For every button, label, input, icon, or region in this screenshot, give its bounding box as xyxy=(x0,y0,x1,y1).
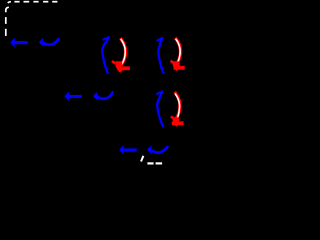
carriage-return arrow row3 straight: shaft xyxy=(123,148,137,151)
platen rotation pair C: blue up-arc xyxy=(157,98,163,128)
dashed page outline bottom edge: dash 2 xyxy=(156,162,163,164)
carriage-return arrow row2 curved: head xyxy=(93,92,97,101)
platen rotation pair B: white core highlight xyxy=(176,39,181,66)
platen rotation pair C: red arrowhead blob xyxy=(173,117,179,126)
carriage-return arrow row3 curved: head xyxy=(147,145,151,154)
platen rotation pair B: blue up-arc xyxy=(158,43,164,74)
carriage-return arrow row1 straight: head xyxy=(10,38,15,48)
platen rotation pair A: white core highlight xyxy=(121,39,126,66)
platen rotation pair A: red arrowhead blob xyxy=(115,61,122,73)
dashed page outline top-left: left edge dashes xyxy=(5,17,7,24)
platen rotation pair B: red arrowhead blob xyxy=(173,61,180,71)
carriage-return arrow row2 straight: shaft xyxy=(68,95,82,98)
dashed page outline top-left: corner bracket xyxy=(6,7,9,12)
dashed page outline bottom edge: dash 1 xyxy=(147,162,153,164)
platen rotation pair B: red down-arc xyxy=(175,38,180,65)
platen rotation pair A: red down-arc xyxy=(120,38,125,65)
carriage-return arrow row1 curved: head xyxy=(39,38,43,47)
dashed page outline top-left: corner arc dash xyxy=(8,2,11,3)
dashed page outline bottom-left corner: slanted tick xyxy=(141,156,143,162)
platen rotation pair B: blue arrowhead chevron xyxy=(157,38,163,45)
platen rotation pair C: red bar xyxy=(172,121,184,125)
platen rotation pair C: white core highlight xyxy=(175,94,180,122)
platen rotation pair C: blue arrowhead chevron xyxy=(156,92,162,99)
carriage-return arrow row2 curved: shaft xyxy=(97,91,113,99)
platen rotation pair B: red arrowhead arm xyxy=(171,61,175,64)
carriage-return arrow row1 curved: shaft xyxy=(43,38,59,45)
carriage-return arrow row3 curved: shaft xyxy=(151,146,168,153)
dashed page outline top-left: top edge dashes xyxy=(6,2,58,36)
carriage-return arrow row2 straight: head xyxy=(64,91,69,101)
platen rotation pair A: red arrowhead arm xyxy=(112,61,115,64)
platen rotation pair C: red down-arc xyxy=(175,92,180,120)
platen rotation pair A: blue arrowhead chevron xyxy=(103,37,109,44)
platen rotation pair A: blue up-arc xyxy=(102,42,108,73)
platen rotation pair B: red bar xyxy=(174,66,185,70)
platen rotation pair A: red bar xyxy=(120,66,130,70)
carriage-return arrow row3 straight: head xyxy=(119,145,124,155)
carriage-return arrow row1 straight: shaft xyxy=(14,41,28,44)
platen rotation pair C: red arrowhead arm xyxy=(171,116,175,120)
